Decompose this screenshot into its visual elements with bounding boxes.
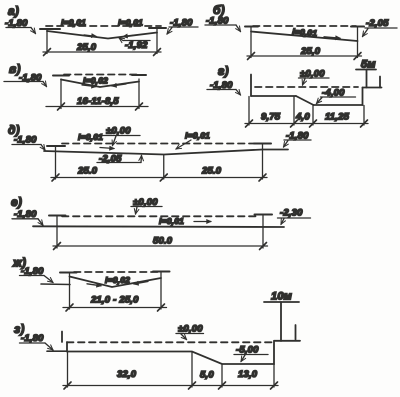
section label в [9,62,21,76]
depth callout -2,05 of д [97,154,142,165]
dashed design level of г [255,86,358,88]
left edge tick of г [250,75,252,97]
dimension row 32,0 5,0 13,0 of з [63,352,278,389]
svg-text:i=0,01: i=0,01 [78,132,103,142]
svg-text:i=0,01: i=0,01 [159,216,184,226]
dashed design level of з [67,341,274,343]
elevation mark -1,80 left of е [12,209,43,225]
section label г [218,64,229,78]
ground line right of з [274,340,300,342]
svg-text:-1,92: -1,92 [125,40,148,51]
dashed design level of а [46,25,161,27]
flat bottom of г [314,104,363,106]
left bank tick of в [53,75,69,77]
slope label i=0,01 of е [159,216,211,226]
left wall of з [66,342,68,352]
elevation mark -1,80 left of д [12,135,45,151]
svg-text:25,0: 25,0 [300,46,321,57]
svg-text:10м: 10м [271,291,292,303]
svg-text:а): а) [8,4,19,18]
dimension row 9,75 4,0 11,25 of г [245,97,368,128]
svg-text:i=0,01: i=0,01 [118,18,143,28]
slope label i=0,01 right of а [118,18,143,28]
svg-text:-2,30: -2,30 [280,208,303,219]
section label д [8,123,20,137]
slope of г [296,96,314,105]
elevation mark -1,80 right of д [284,131,312,148]
left bank tick of а [40,28,60,30]
svg-text:i=0,01: i=0,01 [61,18,86,28]
elevation mark -2,05 right of б [363,18,398,37]
svg-text:4,0: 4,0 [295,112,310,123]
left edge tick of з [61,332,63,343]
right bank tick of а [149,27,166,29]
svg-text:25.0: 25.0 [201,166,222,177]
elevation mark -1,80 of з [20,333,54,350]
elevation mark -1,80 left of а [5,18,36,34]
dimension 25.0 25.0 of д [51,144,267,181]
svg-text:13,0: 13,0 [238,369,258,380]
trench bottom of е [33,225,284,228]
slope arrows of в [82,84,126,87]
dimension 25,0 of б [247,27,362,60]
dashed design level of е [62,215,258,217]
slope label i=0,02 of в [83,76,108,86]
elevation mark -2,30 right of е [278,208,311,225]
right bank tick of д [254,143,271,145]
right bank tick of б [351,26,364,28]
elevation mark ±0,00 of г [299,69,330,86]
trench bottom V of в [61,80,139,88]
right bank tick of е [255,214,273,216]
slope label i=0,01 left of а [61,18,86,28]
svg-text:25.0: 25.0 [77,166,98,177]
dashed design level of б [253,25,356,27]
trench bottom V of ж [70,277,162,288]
slope arrows of ж [87,282,148,286]
trench bottom slope of б [251,32,358,42]
depth callout -1,92 of а [119,38,150,51]
dimension 50.0 of е [53,215,268,250]
spoil bank 5m pole of г [356,59,380,88]
ground stub left of з [47,350,67,352]
svg-text:32,0: 32,0 [117,369,137,380]
slope arrows of а [84,35,135,37]
elevation mark ±0,00 of е [131,197,162,214]
slope label i=0,01 left of д [78,132,114,149]
svg-text:i=0,01: i=0,01 [292,27,318,39]
ground line right of г [363,87,382,89]
elevation mark ±0,00 of д [103,126,140,146]
right bank tick of ж [153,271,170,273]
svg-text:50.0: 50.0 [153,236,173,247]
elevation mark -4,00 of г [317,88,356,104]
right wall of г [362,88,364,106]
svg-text:г): г) [218,64,229,78]
svg-text:i=0,02: i=0,02 [83,76,108,86]
trench bottom of з [67,342,274,365]
elevation mark -1,80 of в [4,73,47,87]
svg-text:21,0 - 25,0: 21,0 - 25,0 [90,295,139,306]
spoil bank 10m pole of з [264,291,299,342]
left bank tick of д [47,145,65,147]
svg-text:i=0,01: i=0,01 [185,131,210,141]
ground stub left of ж [41,283,70,286]
slope label i=0,01 right of д [176,131,210,150]
trench bottom of д [44,150,288,155]
left bank tick of е [49,215,66,217]
elevation mark -1,80 right of а [167,18,198,35]
elevation mark -1,80 of г [207,80,241,95]
section label е [11,195,22,209]
dashed design level of в [64,74,141,76]
svg-text:25,0: 25,0 [76,42,97,53]
dashed design level of д [62,143,258,145]
section label а [8,4,19,18]
svg-text:16-11-8,5: 16-11-8,5 [77,96,119,107]
dimension 25,0 of а [43,29,161,56]
dashed design level of ж [74,271,159,273]
slope label i=0,02 of ж [105,275,130,285]
left bank tick of ж [60,272,77,274]
dimension 16-11-8,5 of в [46,79,148,110]
svg-text:е): е) [11,195,22,209]
left bank tick of б [245,26,258,28]
trench bottom V of а [47,31,157,39]
section label з [14,322,25,336]
svg-text:9,75: 9,75 [261,112,281,123]
ground line left of г [251,95,296,97]
right bank tick of в [132,74,146,76]
dimension 21,0 - 25,0 of ж [63,272,167,311]
svg-text:11,25: 11,25 [325,112,350,123]
section label б [213,3,225,17]
svg-text:i=0,02: i=0,02 [105,275,130,285]
slope label i=0,01 of б [292,27,340,39]
elevation mark -5,00 of з [234,345,268,362]
elevation mark -1,80 left of б [205,16,241,32]
elevation mark ±0,00 of з [176,324,204,340]
svg-text:5м: 5м [361,59,376,71]
section label ж [12,256,26,270]
svg-text:5,0: 5,0 [200,370,214,381]
elevation mark -1,80 of ж [20,266,54,283]
